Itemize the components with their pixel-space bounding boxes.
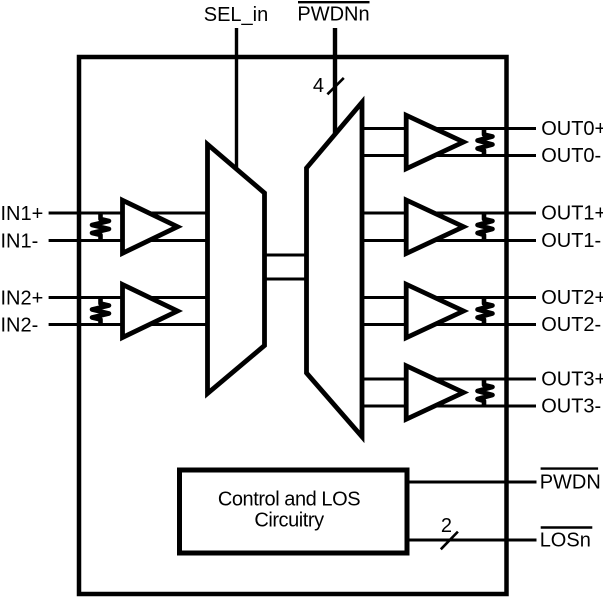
svg-text:OUT2-: OUT2-: [541, 314, 601, 336]
input buffer A1 (IN1): [123, 200, 178, 253]
output buffer B2 (OUT2): [406, 284, 463, 338]
svg-text:OUT2+: OUT2+: [541, 287, 603, 309]
termination resistor R5 (OUT2 pair): [478, 298, 493, 325]
mux U1 (2:1 input multiplexer trapezoid): [208, 144, 265, 393]
svg-text:OUT1-: OUT1-: [541, 230, 601, 252]
wire OUT2-: [360, 323, 536, 326]
wire PWDNn vertical: [333, 28, 337, 136]
output buffer B0 (OUT0): [406, 115, 463, 169]
wire mux-to-fanout pair lower: [262, 278, 309, 281]
wire OUT3+: [360, 378, 536, 381]
svg-text:4: 4: [313, 75, 324, 97]
svg-text:PWDNn: PWDNn: [297, 4, 369, 26]
svg-text:SEL_in: SEL_in: [204, 4, 269, 26]
wire IN2-: [49, 323, 210, 326]
control block: Control and LOS Circuitry: [180, 470, 408, 553]
svg-text:Circuitry: Circuitry: [254, 510, 324, 532]
wire IN2+: [49, 296, 210, 299]
termination resistor R6 (OUT3 pair): [478, 379, 493, 406]
svg-text:OUT3-: OUT3-: [541, 396, 601, 418]
wire mux-to-fanout pair upper: [262, 254, 309, 257]
svg-text:IN1+: IN1+: [1, 203, 44, 225]
input buffer A2 (IN2): [123, 285, 178, 338]
wire OUT1+: [360, 212, 536, 215]
termination resistor R4 (OUT1 pair): [478, 213, 493, 241]
termination resistor R1 (IN1 pair): [92, 213, 109, 241]
output buffer B3 (OUT3): [406, 366, 463, 420]
overline for PWDN: [541, 467, 599, 469]
outer chip boundary box: [79, 57, 507, 594]
termination resistor R3 (OUT0 pair): [478, 129, 493, 156]
svg-text:LOSn: LOSn: [540, 530, 591, 552]
wire OUT0-: [360, 154, 536, 157]
bus-width slash 4: [327, 78, 343, 94]
wire OUT0+: [360, 127, 536, 130]
svg-text:IN2-: IN2-: [1, 315, 39, 337]
termination resistor R2 (IN2 pair): [92, 298, 109, 325]
wire PWDN output: [407, 481, 537, 484]
wire SEL_in vertical: [235, 28, 238, 170]
wire IN1-: [49, 239, 210, 242]
overline for LOSn: [541, 526, 593, 528]
output buffer B1 (OUT1): [406, 200, 463, 254]
svg-text:PWDN: PWDN: [540, 472, 601, 494]
overline for PWDNn: [298, 1, 370, 3]
wire OUT3-: [360, 405, 536, 408]
svg-text:2: 2: [441, 515, 452, 537]
svg-text:OUT0+: OUT0+: [541, 118, 603, 140]
fanout U2 (1:4 output trapezoid): [307, 102, 363, 436]
svg-text:OUT1+: OUT1+: [541, 203, 603, 225]
svg-text:IN2+: IN2+: [1, 288, 44, 310]
svg-text:IN1-: IN1-: [1, 231, 39, 253]
svg-text:Control and LOS: Control and LOS: [218, 489, 360, 511]
wire LOSn output: [407, 539, 537, 542]
bus-width slash 2: [441, 532, 458, 550]
wire OUT1-: [360, 239, 536, 242]
svg-text:OUT0-: OUT0-: [541, 145, 601, 167]
wire OUT2+: [360, 296, 536, 299]
svg-text:OUT3+: OUT3+: [541, 369, 603, 391]
wire IN1+: [49, 212, 210, 215]
